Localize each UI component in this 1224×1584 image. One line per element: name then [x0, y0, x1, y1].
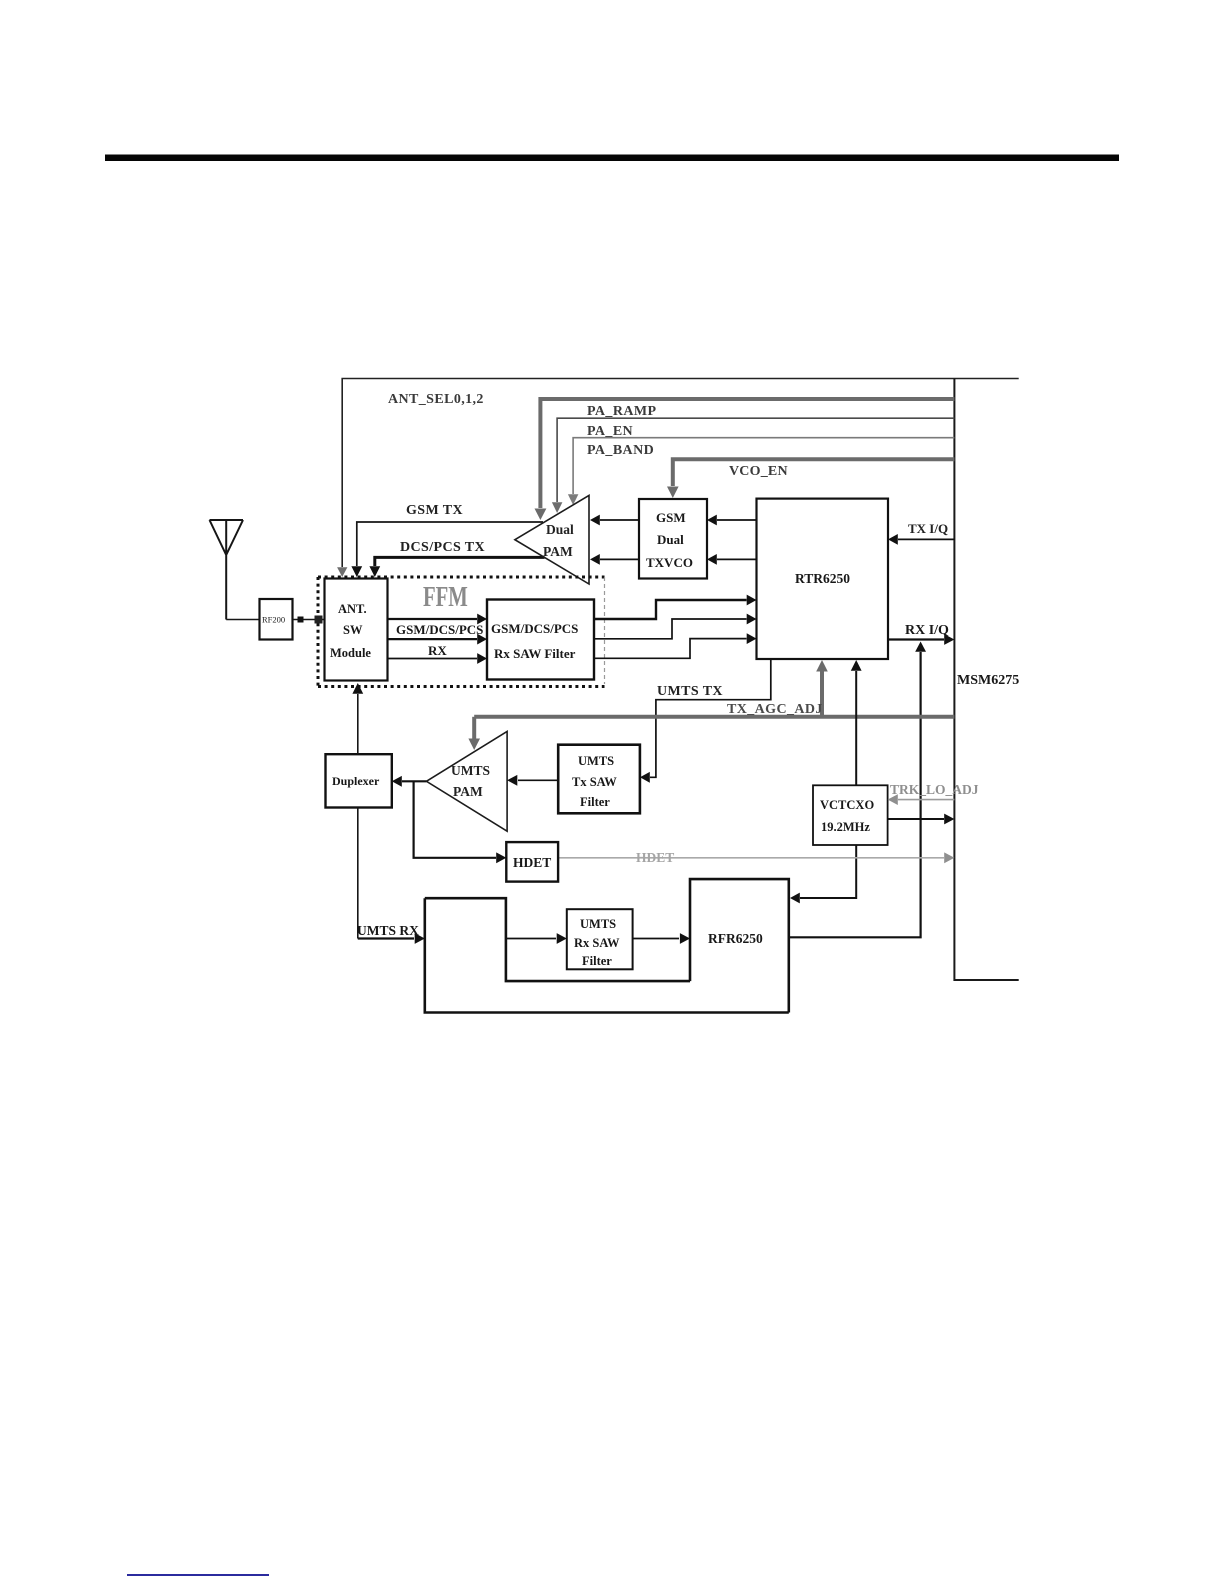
block Duplexer	[326, 754, 392, 807]
label TX_AGC_ADJ	[727, 702, 823, 717]
svg-text:Dual: Dual	[657, 532, 684, 547]
wire PA_RAMP	[535, 399, 955, 520]
antenna	[210, 520, 244, 620]
label GSM/DCS/PCS	[396, 622, 483, 637]
svg-text:UMTS TX: UMTS TX	[657, 684, 723, 699]
svg-text:TXVCO: TXVCO	[646, 555, 693, 570]
svg-text:GSM/DCS/PCS: GSM/DCS/PCS	[396, 622, 483, 637]
svg-text:Dual: Dual	[546, 522, 574, 537]
wire UMTS Rx SAW to RFR6250	[633, 933, 690, 944]
chip RTR6250	[757, 499, 889, 659]
svg-text:PAM: PAM	[453, 784, 483, 799]
wire VCTCXO to RTR6250	[851, 660, 862, 785]
amplifier Dual PAM	[515, 495, 589, 584]
wire SAW out 1 to RTR6250	[594, 595, 757, 619]
wire antenna to RF200	[226, 619, 259, 621]
svg-text:DCS/PCS TX: DCS/PCS TX	[400, 540, 485, 555]
svg-text:GSM TX: GSM TX	[406, 503, 463, 518]
wire ANT_SEL0,1,2 from MSM6275 top to FFM	[337, 379, 1019, 578]
wire RTR6250 to TXVCO (1)	[707, 515, 757, 526]
svg-text:Tx SAW: Tx SAW	[572, 775, 617, 789]
svg-text:HDET: HDET	[513, 855, 551, 870]
svg-text:VCO_EN: VCO_EN	[729, 464, 788, 479]
wire TRK_LO_ADJ	[888, 794, 955, 805]
svg-text:Filter: Filter	[582, 954, 612, 968]
wire TX_AGC_ADJ	[468, 660, 954, 750]
svg-text:19.2MHz: 19.2MHz	[821, 820, 870, 834]
svg-text:PA_RAMP: PA_RAMP	[587, 404, 656, 419]
amplifier UMTS PAM	[426, 731, 507, 831]
umts rx module boundary	[425, 898, 789, 1012]
wire Tx SAW to UMTS PAM	[507, 775, 558, 786]
label ANT_SEL0,1,2	[388, 392, 484, 407]
label PA_EN	[587, 424, 633, 439]
svg-text:TX I/Q: TX I/Q	[908, 521, 948, 536]
wire HDET to MSM	[558, 852, 954, 863]
wire 19.2MHz clock to MSM	[888, 814, 955, 825]
svg-text:RX I/Q: RX I/Q	[905, 623, 949, 638]
block UMTS Rx SAW Filter	[567, 909, 633, 969]
wire SAW out 2 to RTR6250	[594, 614, 757, 639]
svg-text:Duplexer: Duplexer	[332, 774, 380, 788]
wire RFR6250 output to RX I/Q node	[789, 642, 926, 938]
svg-text:PA_BAND: PA_BAND	[587, 443, 654, 458]
svg-text:RTR6250: RTR6250	[795, 571, 850, 586]
block GSM Dual TXVCO	[639, 499, 707, 579]
svg-text:ANT.: ANT.	[338, 602, 367, 616]
wire GSM TX	[351, 522, 543, 577]
svg-text:PA_EN: PA_EN	[587, 424, 633, 439]
label RX I/Q	[905, 623, 949, 638]
wire RX I/Q	[888, 634, 954, 645]
wire ANT SW to SAW (1)	[388, 614, 488, 625]
wire to UMTS Rx SAW	[506, 933, 567, 944]
label PA_RAMP	[587, 404, 656, 419]
block ANT SW Module	[325, 579, 388, 681]
label TRK_LO_ADJ	[890, 782, 979, 797]
wire Duplexer down to UMTS RX	[357, 808, 359, 939]
wire UMTS RX	[358, 933, 425, 944]
svg-text:ANT_SEL0,1,2: ANT_SEL0,1,2	[388, 392, 484, 407]
label VCO_EN	[729, 464, 788, 479]
wire PA_BAND	[568, 438, 955, 505]
wire PAM output to HDET	[414, 781, 507, 863]
wire TX I/Q	[888, 534, 954, 545]
label MSM6275	[957, 673, 1019, 688]
svg-text:GSM: GSM	[656, 510, 686, 525]
label HDET (wire)	[636, 850, 674, 865]
wire PA_EN	[552, 418, 955, 513]
svg-text:TX_AGC_ADJ: TX_AGC_ADJ	[727, 702, 823, 717]
bottom blue rule	[127, 1574, 269, 1576]
chip RFR6250	[690, 879, 789, 1012]
label FFM	[423, 582, 468, 613]
wire TXVCO to Dual PAM (1)	[590, 515, 639, 526]
junction dot at FFM edge	[315, 616, 323, 624]
label RX	[428, 643, 447, 658]
oscillator VCTCXO 19.2MHz	[813, 785, 888, 845]
svg-text:Module: Module	[330, 646, 371, 660]
svg-text:RFR6250: RFR6250	[708, 931, 763, 946]
svg-text:VCTCXO: VCTCXO	[820, 798, 874, 812]
svg-text:SW: SW	[343, 623, 363, 637]
block RF200	[260, 599, 293, 640]
block GSM/DCS/PCS Rx SAW Filter	[487, 600, 594, 680]
svg-text:RF200: RF200	[262, 615, 285, 625]
wire UMTS PAM to Duplexer	[392, 776, 427, 787]
wire RTR6250 to TXVCO (2)	[707, 554, 757, 565]
svg-text:MSM6275: MSM6275	[957, 673, 1019, 688]
wire SAW out 3 to RTR6250	[594, 633, 757, 658]
label DCS/PCS TX	[400, 540, 485, 555]
top rule	[105, 155, 1119, 162]
wire ANT SW to SAW (3)	[388, 653, 488, 664]
svg-text:TRK_LO_ADJ: TRK_LO_ADJ	[890, 782, 979, 797]
detector HDET	[506, 842, 558, 882]
label GSM TX	[406, 503, 463, 518]
wire Duplexer to ANT SW	[352, 683, 363, 754]
label TX I/Q	[908, 521, 948, 536]
svg-text:HDET: HDET	[636, 850, 674, 865]
wire ANT SW to SAW (2)	[388, 634, 488, 645]
svg-text:Filter: Filter	[580, 795, 610, 809]
junction dot	[298, 617, 304, 623]
chip MSM6275 (left edge, top and bottom stubs)	[954, 379, 1018, 981]
svg-text:RX: RX	[428, 643, 447, 658]
svg-text:FFM: FFM	[423, 582, 468, 613]
svg-text:UMTS RX: UMTS RX	[357, 923, 419, 938]
svg-text:UMTS: UMTS	[580, 917, 616, 931]
svg-text:UMTS: UMTS	[451, 763, 490, 778]
wire TXVCO to Dual PAM (2)	[590, 554, 639, 565]
svg-text:Rx SAW Filter: Rx SAW Filter	[494, 646, 576, 661]
svg-text:PAM: PAM	[543, 544, 573, 559]
wire UMTS TX from RTR6250 to Tx SAW	[640, 659, 771, 783]
wire VCO_EN	[667, 459, 954, 498]
wire DCS/PCS TX	[369, 557, 544, 577]
module FFM dotted border	[318, 577, 605, 687]
wire RF200 to ANT SW	[293, 619, 325, 621]
label PA_BAND	[587, 443, 654, 458]
svg-text:Rx SAW: Rx SAW	[574, 936, 620, 950]
label UMTS TX	[657, 684, 723, 699]
svg-text:GSM/DCS/PCS: GSM/DCS/PCS	[491, 621, 578, 636]
wire VCTCXO to RFR6250	[790, 845, 856, 903]
block UMTS Tx SAW Filter	[558, 745, 640, 814]
label UMTS RX	[357, 923, 419, 938]
svg-text:UMTS: UMTS	[578, 754, 614, 768]
